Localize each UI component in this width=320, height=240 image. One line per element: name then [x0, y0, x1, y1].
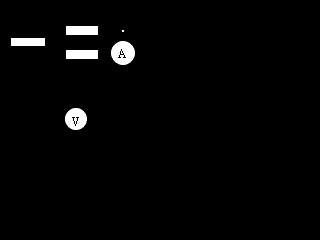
voltmeter V1: [65, 108, 87, 130]
resistor R1 (filled bar): [11, 38, 45, 46]
ammeter A1: [111, 41, 135, 65]
capacitor C1 top plate: [66, 26, 98, 35]
node junction dot: [122, 30, 124, 32]
capacitor C1 bottom plate: [66, 50, 98, 59]
